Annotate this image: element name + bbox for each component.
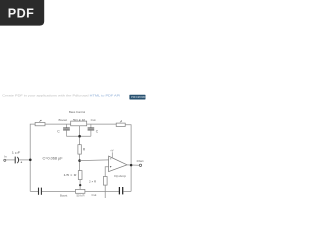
input terminal circle	[4, 159, 6, 161]
svg-text:Cut: Cut	[92, 193, 97, 197]
svg-text:PDFCROWD: PDFCROWD	[131, 97, 146, 99]
wire inverting input	[80, 159, 109, 162]
wire top-right corner to right rail	[125, 125, 131, 192]
capacitor C (top-left): stubs and plates	[65, 124, 67, 128]
wire to bottom pot wiper	[79, 180, 81, 190]
page background	[0, 0, 149, 198]
op-amp triangle	[109, 156, 127, 172]
wire bottom rail right corner	[123, 190, 131, 192]
potentiometer 50 k R (bottom, box)	[76, 189, 85, 193]
resistor R (top-right, horizontal box)	[116, 123, 125, 126]
capacitor (bottom-left, plates)	[38, 188, 40, 195]
svg-text:C=0.068 µF: C=0.068 µF	[43, 157, 63, 161]
svg-text:Bass Control: Bass Control	[69, 110, 85, 114]
resistor R (middle vertical box)	[78, 145, 81, 154]
wire non-inverting input down	[105, 167, 108, 177]
arrow mark above top-right resistor	[120, 121, 122, 123]
svg-text:In: In	[4, 155, 7, 159]
wire bottom rail cap to pot	[42, 190, 76, 192]
wire input cap to rail	[19, 159, 30, 161]
wire top-left lead	[30, 124, 35, 191]
svg-text:50 k R: 50 k R	[77, 193, 86, 197]
capacitor 1 uF (input, polarized)	[14, 157, 16, 164]
wire top rail right segment	[87, 123, 117, 125]
svg-text:Boost: Boost	[60, 193, 67, 197]
svg-text:1/5 × R: 1/5 × R	[64, 173, 78, 177]
wire middle vertical	[79, 154, 81, 171]
node input junction on left rail	[29, 159, 32, 162]
node output junction	[130, 164, 133, 167]
wire top rail left segment	[45, 123, 71, 125]
minus sign (inverting)	[110, 158, 111, 160]
svg-text:Op Amp: Op Amp	[114, 174, 126, 178]
PDF badge top-left	[0, 0, 44, 26]
svg-text:2 × R: 2 × R	[89, 179, 97, 183]
arrow mark above top-left resistor	[39, 120, 41, 122]
node bus junction	[78, 135, 81, 138]
wire input lead	[6, 159, 15, 161]
plus sign (non-inverting)	[110, 166, 112, 168]
wire bus joining cap bottoms	[66, 135, 91, 137]
resistor 2 x R (vertical box)	[103, 177, 107, 186]
capacitor C (top-right): stubs and plates	[90, 124, 92, 128]
pdfcrowd button	[129, 95, 145, 100]
wire bottom rail left of pot	[30, 190, 38, 192]
svg-text:+V: +V	[110, 148, 114, 152]
potentiometer 50 k R (top, box)	[71, 121, 87, 126]
svg-text:1 µF: 1 µF	[12, 151, 21, 155]
resistor R (top-left, horizontal box)	[35, 123, 45, 126]
node inverting input junction	[78, 159, 81, 162]
capacitor (bottom-right, plates)	[118, 187, 120, 194]
resistor 1/5 x R (vertical box)	[78, 171, 82, 180]
wire pot wiper down	[79, 126, 81, 145]
svg-text:Cut: Cut	[91, 118, 96, 122]
plus mark at input cap	[21, 161, 23, 163]
svg-text:Boost: Boost	[59, 118, 68, 122]
output terminal circle	[139, 164, 141, 166]
svg-text:PDF: PDF	[8, 6, 34, 20]
svg-text:Out: Out	[137, 159, 144, 163]
wire op-amp output	[127, 164, 139, 166]
wire bottom rail pot to right cap	[85, 190, 119, 192]
power stub +V	[111, 152, 113, 158]
svg-text:Create PDF in your application: Create PDF in your applications with the…	[2, 93, 120, 97]
node wiper arrow dot	[79, 184, 81, 186]
wire 2xR to bottom edge	[104, 185, 106, 198]
